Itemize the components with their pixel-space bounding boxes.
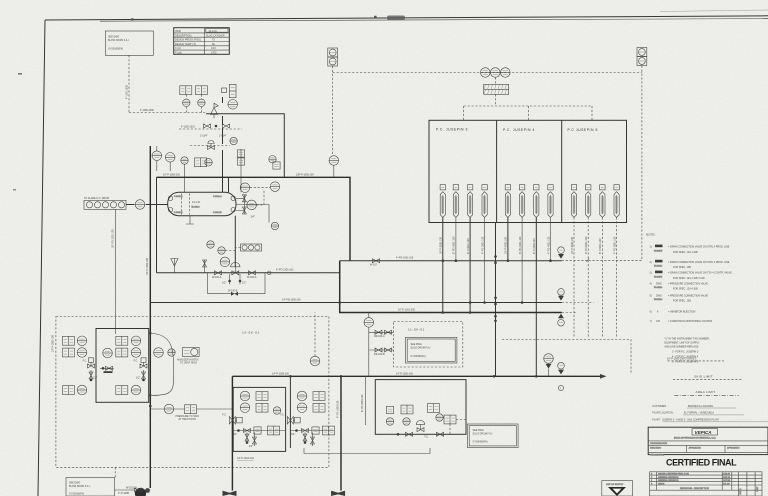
svg-text:W-400/14: W-400/14 bbox=[654, 287, 662, 289]
wire line below tag 7 bbox=[535, 217, 537, 376]
svg-text:10-SK-01: 10-SK-01 bbox=[242, 331, 260, 335]
svg-text:FOR SPEC. 12A 4 10B 4 10D: FOR SPEC. 12A 4 10B 4 10D bbox=[673, 277, 705, 280]
plant row bbox=[652, 419, 768, 422]
svg-text:2700: 2700 bbox=[211, 52, 217, 55]
svg-text:W-100-B: W-100-B bbox=[228, 289, 238, 292]
svg-text:PLANT : JUSEPIN 3 - 4 AND 5 -: PLANT : JUSEPIN 3 - 4 AND 5 - GAS COMPRE… bbox=[652, 419, 719, 422]
svg-text:CUSTOMER :: CUSTOMER : bbox=[652, 405, 667, 408]
svg-text:1): 1) bbox=[650, 246, 652, 249]
margin mark bbox=[18, 73, 22, 75]
wire line below tag 3 bbox=[469, 217, 471, 312]
meter run feed riser bbox=[204, 260, 206, 273]
control valve main bbox=[231, 262, 240, 274]
dashed drop to distribution bbox=[464, 77, 592, 120]
bottom offpage arrow right bbox=[331, 491, 345, 496]
border top line 1 bbox=[45, 16, 768, 20]
flow element circle FE bbox=[364, 318, 374, 328]
riser with double ball valves bbox=[495, 223, 497, 377]
svg-text:GENERAL REVISION: GENERAL REVISION bbox=[658, 476, 679, 479]
note 4 bbox=[650, 282, 709, 290]
svg-text:GENERAL REVISION: GENERAL REVISION bbox=[658, 479, 679, 482]
svg-text:4"-FG-5001-100: 4"-FG-5001-100 bbox=[613, 236, 616, 254]
circle note 5 bbox=[558, 385, 563, 390]
svg-text:P (psi): P (psi) bbox=[175, 52, 182, 55]
valve on bridle top bbox=[242, 195, 246, 202]
junction dot c bbox=[149, 405, 152, 408]
instrument circle TI-102 bbox=[165, 153, 175, 163]
bottom left note box 2 bbox=[66, 477, 115, 496]
svg-text:2"-P-100B: 2"-P-100B bbox=[118, 492, 129, 495]
svg-text:F.C.: F.C. bbox=[83, 359, 88, 362]
vent stub with triangle bbox=[173, 258, 175, 273]
link to note box bbox=[444, 415, 456, 424]
valve LRV pair 2 bbox=[223, 124, 230, 128]
left pair row1 circle bbox=[77, 336, 87, 346]
border smudge bbox=[387, 16, 405, 21]
pump blob bbox=[135, 488, 146, 496]
gate valve b bbox=[248, 271, 255, 275]
line tag 16"-P-5000-100 bbox=[571, 185, 576, 218]
dash link bbox=[225, 248, 240, 251]
cluster B sq pair 1 bbox=[313, 392, 325, 401]
svg-text:OCT.93: OCT.93 bbox=[723, 480, 731, 482]
svg-text:LIST OF SUPPLY: LIST OF SUPPLY bbox=[606, 484, 624, 486]
inside row2 circle bbox=[131, 348, 141, 358]
PSHH arrow bbox=[546, 364, 552, 369]
wire line below tag 11 bbox=[601, 217, 603, 337]
svg-text:1"x3/4": 1"x3/4" bbox=[200, 135, 208, 138]
svg-text:3/4": 3/4" bbox=[251, 215, 255, 218]
svg-text:6"-PO-3001-100: 6"-PO-3001-100 bbox=[453, 236, 456, 254]
level bridle right of vessel bbox=[236, 195, 244, 215]
line tag 16"-P-3000-100 bbox=[440, 185, 445, 218]
instrument square PI pair A bbox=[180, 86, 192, 95]
cluster C sq pair bbox=[401, 405, 413, 414]
svg-text:7): 7) bbox=[650, 320, 652, 323]
cluster A lateral line bbox=[232, 430, 285, 432]
svg-text:5): 5) bbox=[650, 294, 652, 297]
main pipe 16in vertical bbox=[149, 146, 151, 488]
vent arrow circle 1 bbox=[558, 247, 565, 259]
svg-text:4"-FG-4001-100: 4"-FG-4001-100 bbox=[547, 236, 550, 254]
svg-text:PLANT LOCATION :: PLANT LOCATION : bbox=[652, 412, 674, 415]
note box 3 bbox=[467, 424, 518, 448]
vessel bottom outlet line bbox=[234, 216, 236, 267]
control valve LV bbox=[208, 141, 215, 150]
svg-text:W-300/75: W-300/75 bbox=[654, 276, 662, 278]
note box 1 (SEE DWG BLOW DOWN) bbox=[105, 31, 153, 55]
svg-text:C-0943-A: C-0943-A bbox=[174, 195, 183, 198]
svg-text:16"-P-1003-100: 16"-P-1003-100 bbox=[146, 258, 149, 275]
instrument circle PSHH bbox=[544, 354, 554, 364]
svg-text:16"-P-1003-100: 16"-P-1003-100 bbox=[163, 174, 180, 177]
svg-text:SLUG DRUM F.A.I.: SLUG DRUM F.A.I. bbox=[411, 347, 432, 350]
PT tail to header bbox=[333, 165, 335, 176]
svg-text:W-2013-B: W-2013-B bbox=[126, 486, 137, 489]
wire line below tag 8 bbox=[550, 217, 552, 260]
svg-text:F.C.: F.C. bbox=[425, 436, 430, 439]
svg-text:BLOW DOWN F.A.I.: BLOW DOWN F.A.I. bbox=[108, 39, 130, 42]
instrument circle LV-101 bbox=[230, 137, 237, 144]
panel divider 1 bbox=[496, 120, 498, 222]
small flow element circle bbox=[267, 271, 271, 275]
svg-text:JUL.93: JUL.93 bbox=[723, 484, 730, 486]
instrument stack 2 top-right bbox=[637, 48, 647, 66]
dashed drop from left stack bbox=[332, 66, 334, 155]
note 1 bbox=[650, 245, 730, 254]
valve LRV pair 1 bbox=[204, 124, 211, 128]
cluster C control valve bbox=[416, 420, 424, 431]
wire line below tag 6 bbox=[521, 217, 523, 302]
instrument circle UV-101B bbox=[491, 68, 501, 78]
svg-text:10P-P-1006-109: 10P-P-1006-109 bbox=[296, 174, 314, 177]
panel divider 2 bbox=[561, 120, 563, 222]
svg-text:6"-PO-1301-100: 6"-PO-1301-100 bbox=[276, 269, 294, 272]
svg-text:DESCRIPTION: DESCRIPTION bbox=[175, 34, 192, 37]
svg-text:= PRESSURE CONNECTION VALVE: = PRESSURE CONNECTION VALVE bbox=[668, 294, 708, 297]
line to LG bbox=[126, 204, 168, 206]
svg-text:SLUG CATCHER: SLUG CATCHER bbox=[206, 34, 225, 37]
wire line below tag 12 bbox=[616, 217, 618, 337]
junction dot b bbox=[149, 394, 152, 397]
plant location row bbox=[652, 412, 744, 415]
instrument circle TW bbox=[181, 157, 188, 164]
dashed line 4-LBD-1301 bbox=[179, 128, 242, 130]
left pair row1 square bbox=[62, 336, 74, 345]
svg-text:16"-P-1301-100: 16"-P-1301-100 bbox=[398, 309, 415, 312]
svg-text:DESIGN PRESS (PSIG): DESIGN PRESS (PSIG) bbox=[175, 39, 201, 42]
note 2 bbox=[650, 260, 730, 269]
margin mark 2 bbox=[13, 189, 16, 190]
F.C. control valve left bbox=[83, 358, 95, 368]
svg-text:TO VENT HIGH: TO VENT HIGH bbox=[180, 362, 197, 365]
svg-text:C-0943-B: C-0943-B bbox=[174, 212, 183, 214]
svg-text:SEE DWG: SEE DWG bbox=[473, 429, 484, 432]
drains with dots bbox=[230, 274, 240, 284]
cluster B lateral bbox=[290, 430, 334, 432]
svg-text:W-100/75: W-100/75 bbox=[654, 250, 662, 252]
meter area bottom edge bbox=[304, 448, 430, 454]
svg-text:JUN.95: JUN.95 bbox=[723, 474, 731, 476]
cluster A sq pair 2 bbox=[256, 403, 268, 412]
border left line bbox=[38, 20, 45, 496]
svg-text:F.C.: F.C. bbox=[280, 414, 285, 417]
line tag 8"-P-4000-100 bbox=[534, 185, 539, 218]
analyzer box bbox=[183, 347, 199, 356]
wire line below tag 10 bbox=[587, 217, 589, 337]
main header 10P-P-1006-109 bbox=[157, 177, 351, 260]
vessel internals dashed bbox=[182, 194, 190, 215]
svg-text:TO FLARE K.O. DRUM: TO FLARE K.O. DRUM bbox=[84, 197, 109, 200]
equipment table 10-V-01 bbox=[174, 28, 230, 55]
svg-text:10-V-01: 10-V-01 bbox=[208, 30, 217, 33]
vepica logo bbox=[674, 429, 718, 440]
takeoff line bbox=[150, 408, 233, 410]
svg-text:APROBADO: APROBADO bbox=[689, 446, 702, 449]
border tick a bbox=[131, 18, 134, 20]
svg-text:14"-P-1300-100: 14"-P-1300-100 bbox=[396, 372, 413, 375]
F.C. control valve right bbox=[134, 358, 147, 368]
note 6 bbox=[650, 310, 696, 313]
svg-text:1/2": 1/2" bbox=[136, 377, 140, 380]
cluster C sq 1 bbox=[386, 406, 393, 413]
svg-text:4"-LBD-1301: 4"-LBD-1301 bbox=[181, 125, 195, 128]
pressure takeoff boxes bbox=[185, 405, 197, 414]
svg-text:3 - FOR P.C. JUSEPIN 3: 3 - FOR P.C. JUSEPIN 3 bbox=[672, 350, 699, 353]
vessel head gauge a bbox=[168, 196, 172, 200]
instrument circle clock TRC bbox=[205, 159, 212, 166]
cluster C bottom line valves bbox=[406, 432, 413, 436]
svg-text:VERSION No.: VERSION No. bbox=[650, 454, 664, 456]
svg-text:8"-P-5001-100: 8"-P-5001-100 bbox=[599, 238, 602, 254]
solenoid square UY bbox=[222, 88, 227, 93]
inside row3 circle bbox=[131, 385, 141, 395]
svg-text:BLOW DOWN F.A.I.: BLOW DOWN F.A.I. bbox=[69, 485, 91, 488]
svg-text:FOR SPEC. 12A 4 10B: FOR SPEC. 12A 4 10B bbox=[673, 251, 698, 254]
wire line below tag 9 bbox=[573, 217, 575, 337]
cluster A sq pair 1 bbox=[256, 392, 268, 401]
ball pair 3 bbox=[494, 315, 497, 318]
dashed line 4-LBD-1300 bbox=[129, 112, 206, 114]
cluster C circle 3 bbox=[436, 414, 443, 421]
tee dots at line ends bbox=[442, 311, 445, 314]
svg-text:6): 6) bbox=[650, 310, 652, 313]
svg-text:FOR SPEC. 10B: FOR SPEC. 10B bbox=[673, 266, 691, 269]
dashed drop right stack to notes elbow bbox=[589, 66, 642, 261]
left drop from header bbox=[156, 177, 158, 272]
riser to 10P header bbox=[228, 178, 230, 193]
cluster B circle 2 bbox=[297, 403, 307, 413]
dashed stub below skid bbox=[114, 467, 116, 477]
vertical to 16in header bbox=[340, 261, 562, 313]
svg-text:4"-LBD-1300: 4"-LBD-1300 bbox=[140, 109, 154, 112]
svg-text:SEE DWG: SEE DWG bbox=[411, 343, 422, 346]
heavy tick bbox=[104, 371, 113, 373]
LV circle stem bbox=[156, 146, 158, 151]
line tag 6"-PO-5001-100 bbox=[586, 185, 591, 218]
left pair row3 square bbox=[62, 386, 74, 395]
vessel top riser PSV bbox=[222, 97, 224, 192]
instrument circle CM b bbox=[218, 247, 225, 254]
note 5 bbox=[650, 294, 709, 302]
instrument square PI pair B bbox=[195, 86, 207, 95]
dashed area boundary right bbox=[502, 340, 631, 375]
instrument circle UV-101A bbox=[481, 68, 491, 78]
note box 11-SK bbox=[405, 337, 457, 363]
svg-text:DESIGN TEMP (°F): DESIGN TEMP (°F) bbox=[175, 43, 196, 46]
note paragraph bbox=[664, 337, 710, 363]
analyzer house box1 bbox=[96, 329, 149, 403]
cluster A FC valve on riser bbox=[222, 414, 242, 424]
svg-text:= DRAIN CONNECTION VALVE ON ST: = DRAIN CONNECTION VALVE ON STRL 4 PROD.… bbox=[668, 261, 730, 264]
border faint upper line bbox=[660, 10, 768, 12]
valve dot bbox=[215, 125, 218, 128]
svg-text:REVISIONS - DESCRIPTION: REVISIONS - DESCRIPTION bbox=[680, 488, 709, 490]
svg-text:SKID LIMIT: SKID LIMIT bbox=[694, 374, 713, 378]
inside row1 squares bbox=[116, 336, 128, 345]
svg-text:C (in): C (in) bbox=[175, 47, 181, 50]
svg-text:C-0944-A: C-0944-A bbox=[213, 195, 222, 198]
valve on bridle bottom bbox=[242, 207, 246, 214]
vessel 10-V-01 bbox=[168, 192, 236, 215]
svg-text:2): 2) bbox=[650, 261, 652, 264]
drain a bbox=[90, 370, 92, 381]
top dashed signal run y72 bbox=[333, 72, 642, 74]
left pair row3 circle bbox=[77, 385, 87, 395]
svg-text:C-0944-B: C-0944-B bbox=[213, 212, 222, 214]
line tag 4"-FG-5001-100 bbox=[614, 185, 619, 218]
svg-text:16"-P-4000-100: 16"-P-4000-100 bbox=[505, 237, 508, 254]
svg-text:3/4": 3/4" bbox=[291, 433, 295, 436]
instrument circle pair right bbox=[269, 156, 276, 163]
instrument circle LT-100 bbox=[247, 200, 257, 210]
customer row bbox=[652, 405, 736, 408]
svg-text:FOR SPEC. 12A 4 10B: FOR SPEC. 12A 4 10B bbox=[673, 288, 698, 291]
svg-text:W-100-A: W-100-A bbox=[212, 276, 222, 279]
svg-text:ISSUED CERTIFIED FINAL P+ID: ISSUED CERTIFIED FINAL P+ID bbox=[658, 473, 689, 476]
line to LG-101 bbox=[236, 205, 269, 223]
cluster B FC valve on riser bbox=[280, 414, 300, 424]
line 4-FG-1001-100 bbox=[340, 260, 562, 262]
svg-text:EL 838.0: EL 838.0 bbox=[192, 206, 201, 208]
ball pair 2 bbox=[494, 297, 497, 300]
svg-text:CERTIFIED FINAL: CERTIFIED FINAL bbox=[666, 457, 737, 467]
junction dot a bbox=[149, 332, 152, 335]
drain header b bbox=[369, 349, 394, 351]
svg-text:= CORROSION MONITORING COUPON: = CORROSION MONITORING COUPON bbox=[668, 320, 712, 323]
meter box C bbox=[375, 380, 466, 435]
instrument circle LSH-102 bbox=[240, 183, 250, 193]
drop line to flare right bbox=[340, 376, 342, 490]
svg-text:DWG: DWG bbox=[656, 282, 662, 285]
svg-text:GY03N05(FA): GY03N05(FA) bbox=[108, 47, 123, 50]
svg-text:AT HIGH POINT: AT HIGH POINT bbox=[179, 418, 197, 421]
svg-text:DR-100-A: DR-100-A bbox=[374, 335, 385, 338]
svg-text:4"-LBD-1300: 4"-LBD-1300 bbox=[125, 85, 128, 99]
svg-text:1/16: 1/16 bbox=[211, 47, 216, 50]
line tag 8"-P-5001-100 bbox=[600, 185, 605, 218]
svg-text:ITEM: ITEM bbox=[175, 30, 181, 33]
svg-text:SEE DWG: SEE DWG bbox=[69, 481, 80, 484]
instrument circle PT skid bbox=[310, 356, 320, 366]
note 3 bbox=[650, 271, 733, 280]
line tag 16"-P-4000-100 bbox=[505, 185, 510, 218]
list of supply box bbox=[602, 481, 633, 496]
svg-text:FOR SPEC. 10D: FOR SPEC. 10D bbox=[673, 300, 691, 303]
svg-text:10-V-01: 10-V-01 bbox=[192, 201, 201, 204]
left pair row2 square bbox=[62, 348, 74, 357]
relief valve PSV bbox=[211, 103, 219, 118]
svg-text:GY03N05(FA): GY03N05(FA) bbox=[473, 440, 488, 443]
wire line below tag 1 bbox=[442, 217, 444, 312]
svg-text:APROBADO: APROBADO bbox=[727, 446, 740, 449]
signal dash LT to LAH bbox=[250, 188, 270, 205]
cluster A circle 2 bbox=[240, 403, 250, 413]
svg-text:ABR.94: ABR.94 bbox=[723, 476, 731, 479]
cluster C circle 2 bbox=[403, 418, 410, 425]
svg-text:1/2": 1/2" bbox=[93, 377, 97, 380]
svg-text:4): 4) bbox=[650, 282, 652, 285]
bottom drain from vessel bbox=[186, 216, 194, 224]
svg-text:CM: CM bbox=[656, 320, 660, 323]
svg-text:AND LINE NUMBER REPLACE:: AND LINE NUMBER REPLACE: bbox=[664, 345, 699, 348]
instrument circle LG-101 bbox=[271, 222, 278, 229]
svg-text:GY03N05(FA): GY03N05(FA) bbox=[69, 493, 84, 496]
line tag 4"-FG-3001-100 bbox=[482, 185, 487, 218]
inside row3 squares bbox=[116, 386, 128, 395]
svg-text:8"-P-4000-100: 8"-P-4000-100 bbox=[533, 238, 536, 254]
svg-text:= INHIBITOR INJECTION: = INHIBITOR INJECTION bbox=[668, 310, 696, 313]
signal drop from burn pit header bbox=[114, 209, 116, 334]
svg-text:4"-FG-3001-100: 4"-FG-3001-100 bbox=[481, 236, 484, 254]
cluster B circle 1 bbox=[297, 391, 307, 401]
ball pair 1 bbox=[494, 255, 497, 258]
drain line to pump bbox=[115, 489, 151, 491]
svg-text:= DRAIN CONNECTION VALVE ON TS: = DRAIN CONNECTION VALVE ON TSV 4 CONTR.… bbox=[668, 272, 732, 275]
svg-text:GY03N05(FA): GY03N05(FA) bbox=[411, 355, 426, 358]
left pair row2 circle bbox=[77, 348, 87, 358]
border tick b bbox=[374, 16, 377, 18]
meter box A bbox=[233, 387, 285, 451]
vessel inlet box (burn pit header) bbox=[84, 200, 126, 209]
svg-text:F.C.: F.C. bbox=[134, 359, 139, 362]
svg-text:BARIVEN & LAGOVEN: BARIVEN & LAGOVEN bbox=[688, 405, 713, 408]
svg-text:CERT: CERT bbox=[757, 486, 759, 492]
svg-text:6"-PO-4001-100: 6"-PO-4001-100 bbox=[519, 236, 522, 254]
cluster A drains bbox=[247, 433, 255, 447]
signal stubs bbox=[186, 95, 201, 113]
svg-text:3): 3) bbox=[650, 272, 652, 275]
heavy line 14-P-1300-100 bbox=[232, 375, 603, 377]
svg-text:16"-P-5000-100: 16"-P-5000-100 bbox=[571, 237, 574, 254]
svg-text:VEPICA: VEPICA bbox=[695, 430, 712, 435]
svg-text:ORGANIZACION: ORGANIZACION bbox=[650, 442, 667, 445]
svg-text:ISSUE: ISSUE bbox=[658, 484, 665, 486]
instrument circle LAH-100 bbox=[270, 182, 280, 192]
instrument circle PIC-100 bbox=[183, 99, 190, 106]
svg-text:"U" IN THE INSTRUMENT TAG NUMB: "U" IN THE INSTRUMENT TAG NUMBER, bbox=[664, 337, 710, 340]
vessel head gauge d bbox=[231, 208, 235, 212]
instrument circle PSV-102 bbox=[228, 100, 238, 110]
svg-text:P.C. JUSEPIN 3: P.C. JUSEPIN 3 bbox=[436, 128, 468, 132]
line tag 6"-PO-3001-100 bbox=[453, 185, 458, 218]
svg-text:EQUIPMENT, LIMIT OF SUPPLY: EQUIPMENT, LIMIT OF SUPPLY bbox=[664, 341, 700, 344]
vent arrow circle 3 (below line) bbox=[558, 314, 565, 327]
svg-text:W-500/14: W-500/14 bbox=[654, 299, 662, 301]
vessel head gauge c bbox=[231, 196, 235, 200]
cluster B sq pair 2 bbox=[313, 403, 325, 412]
transmitter 3-circle box bbox=[241, 244, 262, 251]
svg-text:1/2": 1/2" bbox=[222, 281, 226, 284]
svg-text:(FILIAL DE PETROLEOS DE VENEZU: (FILIAL DE PETROLEOS DE VENEZUELA, S.A.) bbox=[674, 437, 716, 440]
inside row2 squares bbox=[116, 348, 128, 357]
cluster A circle 1 bbox=[240, 391, 250, 401]
end tick bbox=[587, 259, 589, 263]
svg-text:11-SK-01: 11-SK-01 bbox=[408, 328, 425, 332]
right instruments TW TI bbox=[154, 348, 164, 358]
vent arrow circle 2 bbox=[558, 289, 565, 301]
cluster C sq pair 2 bbox=[428, 404, 440, 413]
svg-text:10"-P-1002-100: 10"-P-1002-100 bbox=[52, 335, 55, 352]
svg-text:6"-PO-5001-100: 6"-PO-5001-100 bbox=[585, 236, 588, 254]
svg-text:16"-P-1001-100-GY03-05-3: 16"-P-1001-100-GY03-05-3 bbox=[667, 357, 697, 360]
instrument circle LV-100b bbox=[220, 257, 230, 267]
wire line below tag 5 bbox=[507, 217, 509, 260]
instrument circle PIC-101 bbox=[198, 99, 205, 106]
bypass valve bbox=[231, 292, 238, 296]
instrument circle LG-100 bbox=[135, 200, 145, 210]
organizacion row bbox=[648, 440, 768, 442]
